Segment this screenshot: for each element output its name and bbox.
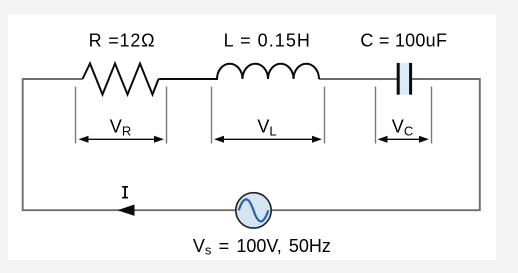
current label I [122,186,128,199]
VL measurement tick left [211,87,213,144]
VR measurement tick left [75,87,77,144]
VL double arrow [214,136,322,143]
capacitor C1 right plate [409,63,412,95]
svg-text:VC: VC [392,117,413,139]
VR double arrow [79,136,165,143]
svg-text:Vs = 100V, 50Hz: Vs = 100V, 50Hz [193,236,331,258]
svg-text:C = 100uF: C = 100uF [360,31,447,51]
VL measurement tick right [324,87,326,144]
inductor L1 (4 humps) [217,64,319,79]
VC measurement tick left [375,87,377,144]
current arrow I (pointing left on bottom wire) [118,205,135,216]
svg-text:VL: VL [257,117,276,139]
svg-text:R =12Ω: R =12Ω [89,31,156,51]
wire: between inductor and capacitor [319,78,398,80]
AC source V1 circle [236,193,271,228]
svg-text:L = 0.15H: L = 0.15H [224,31,311,51]
capacitor C1 dielectric fill [400,63,410,95]
VC measurement tick right [431,87,433,144]
svg-text:VR: VR [110,117,131,139]
resistor R1 zigzag [83,64,159,95]
wire: between resistor and inductor (black) [159,78,219,80]
VC double arrow [378,136,430,143]
VR measurement tick right [166,87,168,144]
wire: main loop (left, bottom, right sides + top leads) gray [23,79,480,210]
capacitor C1 left plate [397,63,400,95]
AC source sine wave [239,199,269,221]
